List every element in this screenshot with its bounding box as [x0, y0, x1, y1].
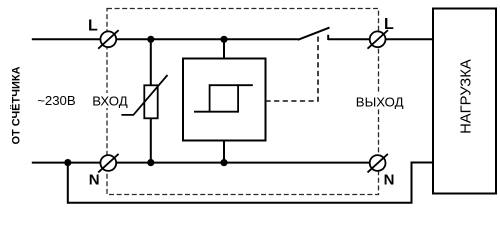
- wire L internal (terminal to switch): [116, 38, 298, 40]
- terminal N output: [368, 154, 388, 173]
- varistor RU1 body: [144, 85, 157, 118]
- wire relay bottom pin: [223, 141, 225, 163]
- switch S1 fixed contact: [327, 35, 329, 40]
- terminal L input: [98, 30, 118, 49]
- node varistor-L junction: [147, 36, 154, 43]
- node varistor-N junction: [147, 159, 154, 166]
- mechanical link relay-to-switch (dashed): [266, 32, 319, 101]
- wire N bypass down segment: [68, 163, 433, 203]
- wire L from meter: [32, 38, 101, 40]
- varistor RU1 diagonal stroke: [121, 75, 167, 115]
- enclosure dashed box (device boundary): [107, 9, 379, 195]
- svg-text:L: L: [88, 17, 98, 34]
- wire varistor top lead: [150, 39, 152, 85]
- wire L after switch to output terminal: [328, 38, 370, 40]
- load box: [433, 9, 496, 194]
- svg-text:N: N: [89, 171, 100, 188]
- svg-text:ВЫХОД: ВЫХОД: [356, 94, 404, 109]
- switch S1 blade: [298, 28, 330, 40]
- node relay-L junction: [220, 36, 227, 43]
- svg-text:ОТ СЧЁТЧИКА: ОТ СЧЁТЧИКА: [10, 66, 23, 144]
- wire varistor bottom lead: [150, 118, 152, 162]
- relay K1 hysteresis symbol: [194, 85, 253, 112]
- svg-text:ВХОД: ВХОД: [92, 94, 128, 109]
- node N-meter junction: [64, 159, 71, 166]
- wire L output terminal to load: [386, 38, 434, 40]
- label VYHOD (output): [354, 94, 405, 109]
- svg-text:N: N: [384, 171, 395, 188]
- label VHOD (input): [91, 93, 130, 109]
- svg-text:L: L: [384, 16, 394, 33]
- svg-text:~230В: ~230В: [37, 93, 76, 108]
- relay K1 body: [183, 59, 266, 141]
- terminal N input: [98, 154, 118, 173]
- terminal L output: [368, 30, 388, 49]
- node relay-N junction: [220, 159, 227, 166]
- wire relay top pin: [223, 39, 225, 58]
- wire N from meter: [32, 162, 101, 164]
- wire N internal (terminal to output terminal): [116, 162, 370, 164]
- svg-text:НАГРУЗКА: НАГРУЗКА: [459, 59, 475, 134]
